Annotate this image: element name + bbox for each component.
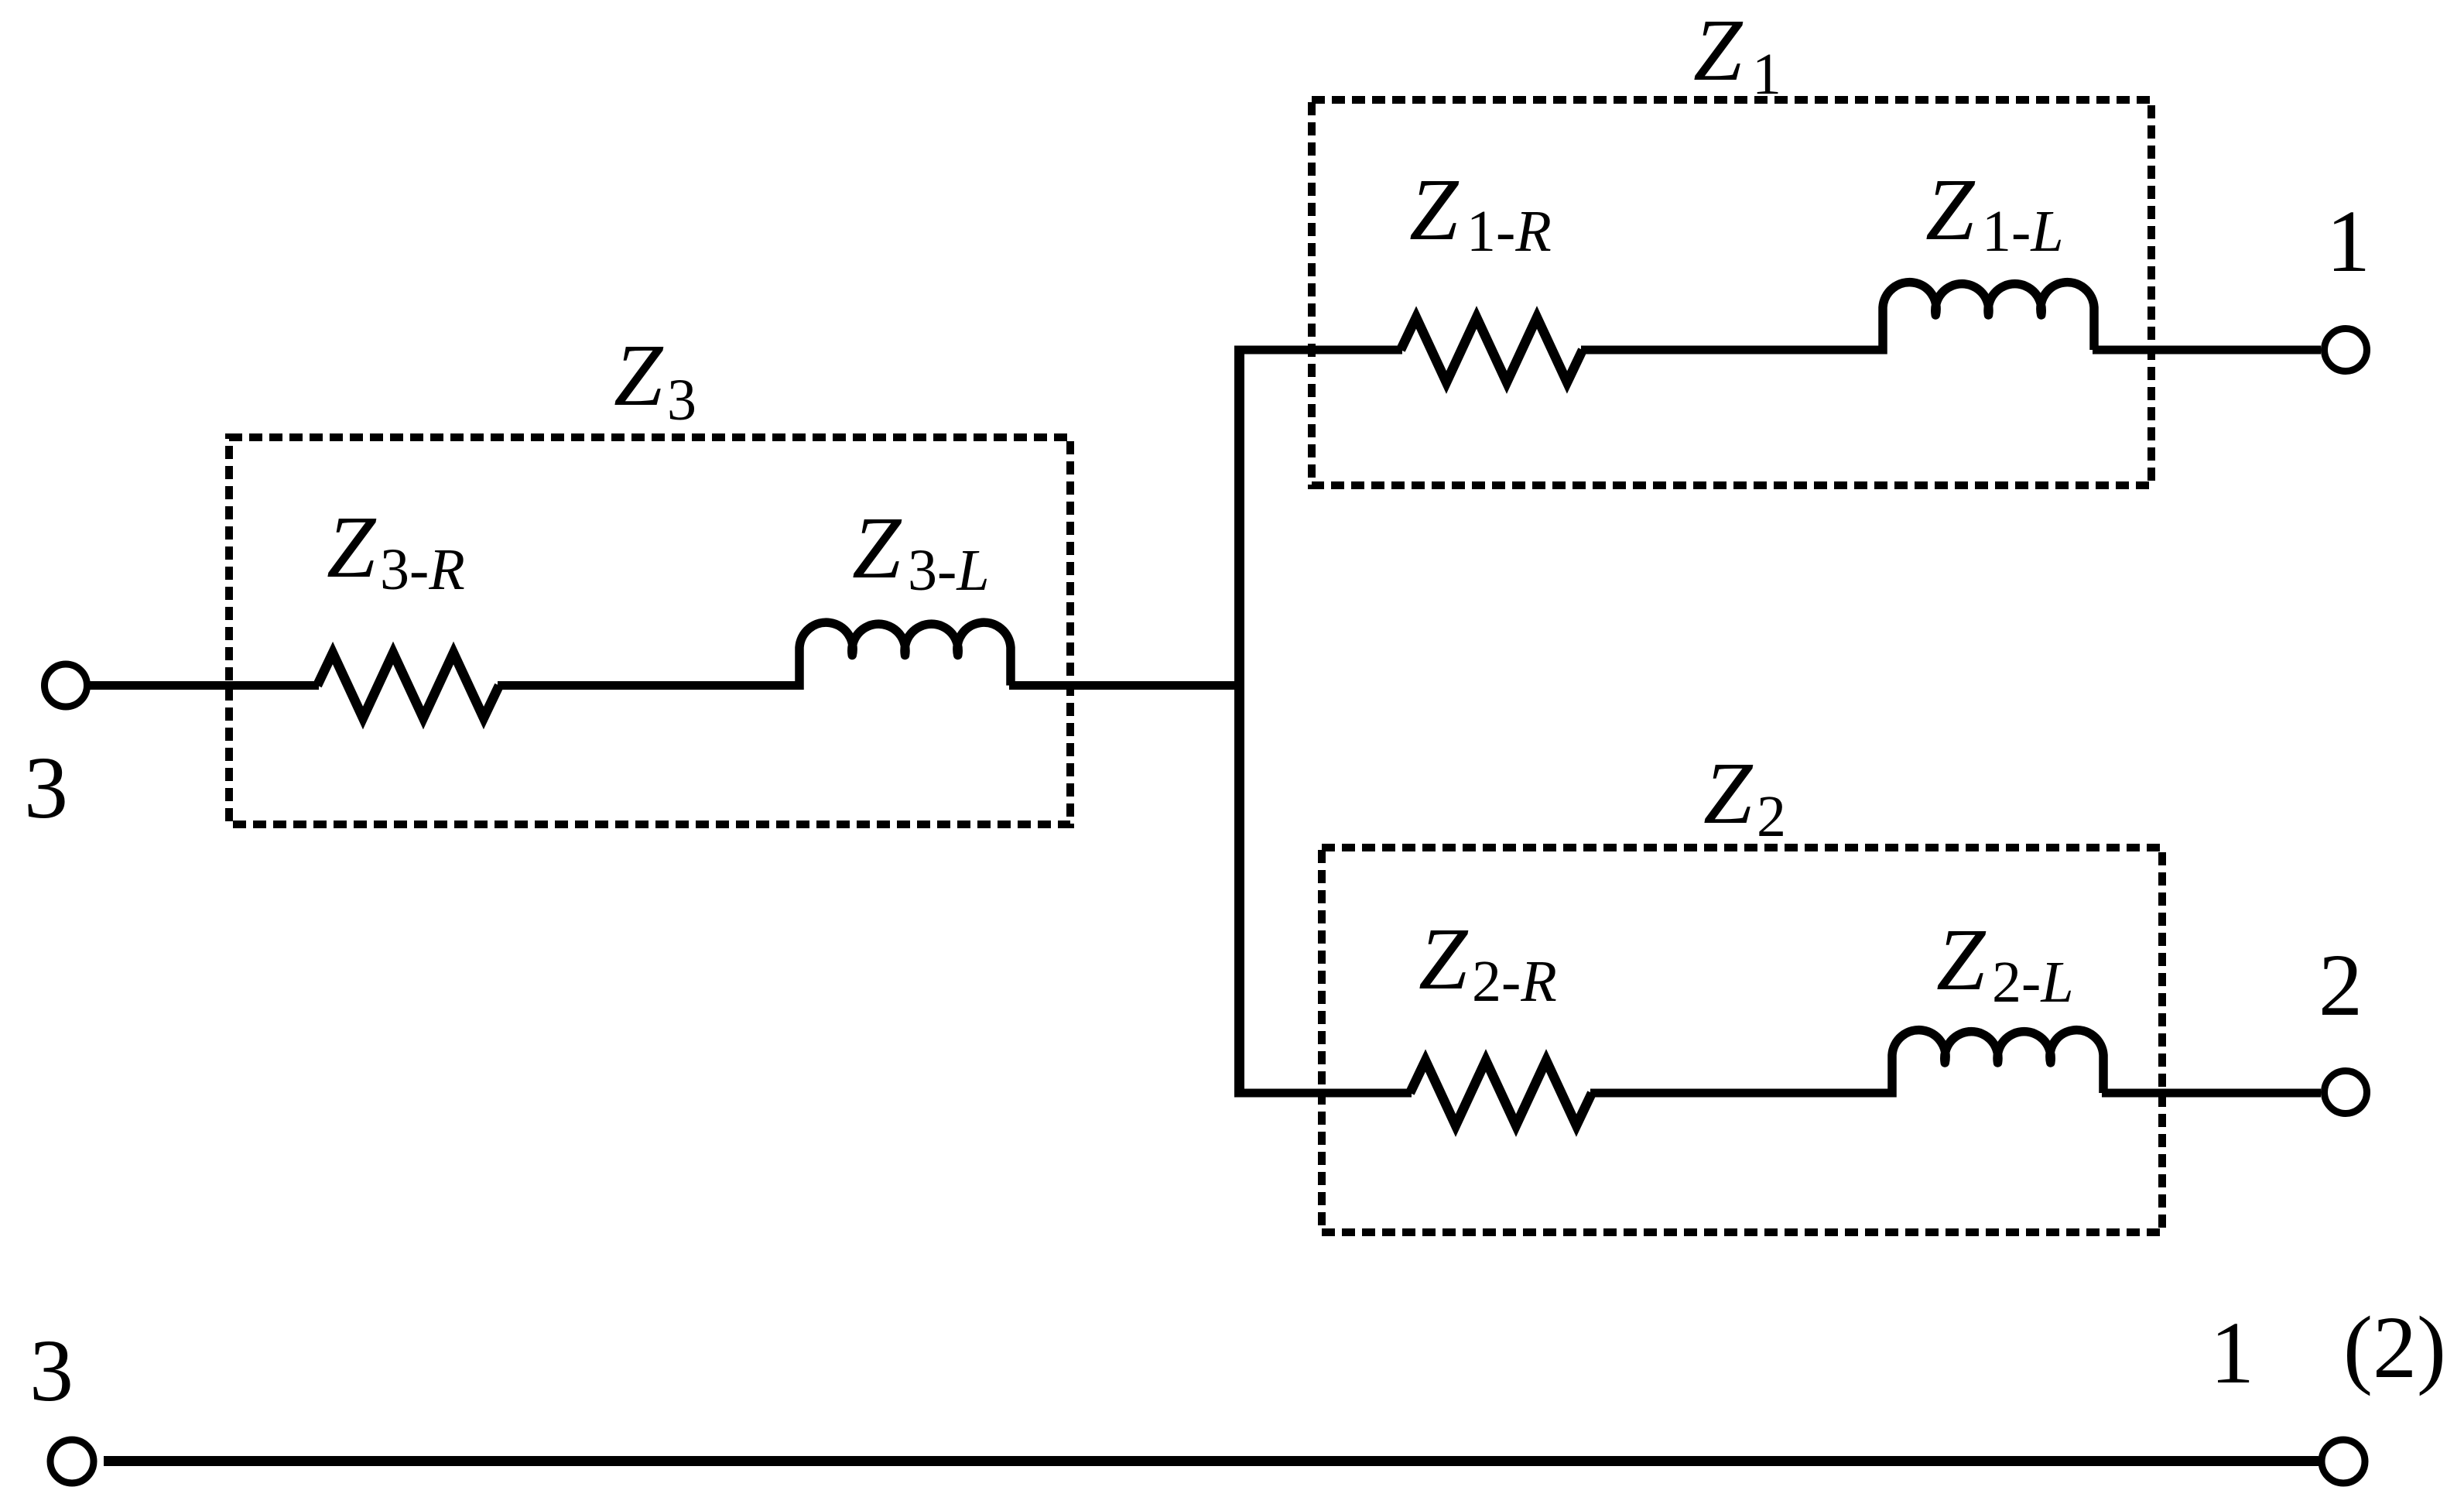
wire resistor to inductor [1590, 1089, 1894, 1098]
terminal 2 [2325, 1071, 2367, 1114]
svg-text:3: 3 [667, 368, 696, 433]
inductor Z3-L [799, 622, 1011, 690]
svg-text:Z: Z [1936, 910, 1987, 1009]
svg-text:Z: Z [1693, 1, 1744, 99]
bottom wire terminal 3 to terminal 1 (2) [104, 1456, 2319, 1466]
svg-text:Z: Z [1419, 910, 1469, 1008]
svg-text:Z: Z [614, 326, 664, 424]
wire terminal 3 to resistor [88, 681, 319, 690]
wire junction to resistor Z1-R [1235, 346, 1402, 355]
svg-text:1: 1 [1752, 42, 1781, 107]
bottom terminal 3 [50, 1440, 94, 1483]
dashed box impedance Z3 [229, 437, 1070, 824]
svg-text:(2): (2) [2343, 1298, 2446, 1396]
wire inductor to terminal 2 [2102, 1089, 2321, 1098]
svg-text:1-R: 1-R [1466, 199, 1552, 264]
svg-text:Z: Z [1409, 160, 1460, 259]
resistor Z2-R [1410, 1060, 1592, 1125]
svg-text:2: 2 [1757, 784, 1786, 849]
wire resistor to inductor [498, 681, 801, 690]
wire inductor to junction node [1009, 681, 1240, 690]
svg-text:Z: Z [1925, 160, 1976, 259]
wire junction to resistor Z2-R [1235, 1089, 1412, 1098]
inductor Z1-L [1883, 283, 2094, 355]
bottom terminal 1 (2) [2322, 1440, 2365, 1483]
svg-text:3: 3 [29, 1321, 74, 1420]
terminal 3 [45, 664, 87, 707]
svg-text:3: 3 [24, 738, 68, 837]
resistor Z3-R [317, 653, 499, 718]
svg-text:1: 1 [2326, 192, 2370, 290]
resistor Z1-R [1401, 317, 1583, 382]
dashed box impedance Z2 [1322, 848, 2162, 1232]
svg-text:Z: Z [327, 498, 377, 596]
svg-text:Z: Z [1703, 744, 1754, 842]
svg-text:2-L: 2-L [1992, 950, 2074, 1015]
svg-text:1: 1 [2210, 1304, 2254, 1402]
svg-text:Z: Z [852, 498, 902, 597]
svg-text:3-R: 3-R [380, 537, 465, 602]
svg-text:2-R: 2-R [1472, 949, 1557, 1014]
svg-text:2: 2 [2319, 936, 2363, 1034]
junction node vertical wire [1234, 346, 1244, 1098]
svg-text:3-L: 3-L [908, 538, 990, 603]
inductor Z2-L [1892, 1030, 2103, 1098]
svg-text:1-L: 1-L [1982, 199, 2064, 264]
dashed box impedance Z1 [1312, 100, 2151, 485]
wire inductor to terminal 1 [2093, 346, 2321, 355]
terminal 1 [2325, 329, 2367, 372]
wire resistor to inductor [1581, 346, 1884, 355]
